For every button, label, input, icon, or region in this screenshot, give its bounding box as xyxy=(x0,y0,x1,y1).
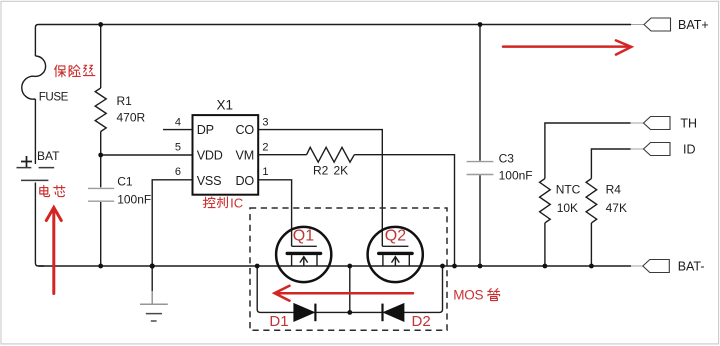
MOSFET Q2 xyxy=(368,227,423,282)
diode D2 xyxy=(383,304,404,322)
svg-text:1: 1 xyxy=(262,166,268,178)
wire VSS pin 6 to ground xyxy=(152,180,192,291)
wire C3 branch top xyxy=(479,25,481,161)
svg-text:DO: DO xyxy=(236,174,255,188)
svg-text:470R: 470R xyxy=(117,111,146,125)
resistor R1 470R xyxy=(95,88,106,132)
diode D1 xyxy=(294,304,316,322)
svg-text:MOS: MOS xyxy=(453,288,483,303)
wire NTC to bottom rail xyxy=(544,223,546,266)
terminal ID xyxy=(631,143,671,156)
wire DP pin 4 stub xyxy=(163,129,193,131)
wire C1 to bottom rail xyxy=(100,202,102,266)
wire CO pin 3 to Q2 gate xyxy=(258,130,382,247)
IC U1 box X1 xyxy=(193,115,259,195)
label 保险丝 (fuse, hand-drawn CJK) xyxy=(55,65,95,77)
wire top rail BAT+ xyxy=(35,25,631,57)
svg-text:D2: D2 xyxy=(412,313,431,330)
wire D1 cathode to middle node xyxy=(316,311,350,313)
resistor R4 47K xyxy=(586,179,597,223)
svg-text:IC: IC xyxy=(230,195,243,210)
svg-text:47K: 47K xyxy=(606,201,627,215)
MOSFET Q1 xyxy=(276,227,331,282)
svg-text:VSS: VSS xyxy=(197,174,222,188)
wire VM pin 2 to R2 xyxy=(258,154,306,156)
wire middle node to D2 cathode xyxy=(350,311,382,313)
terminal TH xyxy=(631,117,671,130)
fuse F1 xyxy=(22,56,46,99)
wire DO pin 1 to Q1 gate xyxy=(258,180,291,247)
svg-text:5: 5 xyxy=(175,142,181,154)
wire VDD pin 5 xyxy=(101,154,193,156)
wire R1 branch vertical top xyxy=(100,25,102,89)
resistor R2 2K xyxy=(307,147,355,162)
wire fuse to battery xyxy=(34,99,36,164)
svg-text:C1: C1 xyxy=(117,174,133,188)
wire C3 to bottom rail xyxy=(479,175,481,266)
svg-text:R1: R1 xyxy=(117,94,133,108)
svg-text:DP: DP xyxy=(197,123,214,137)
svg-text:10K: 10K xyxy=(557,201,578,215)
wire D2 anode to right riser xyxy=(404,266,443,312)
ground xyxy=(140,291,168,321)
svg-text:VDD: VDD xyxy=(197,148,223,162)
wire R4 to bottom rail xyxy=(590,223,592,266)
svg-text:Q2: Q2 xyxy=(385,227,406,244)
wire diode middle riser xyxy=(349,266,351,312)
svg-text:VM: VM xyxy=(236,148,255,162)
red arrow cell current (left) xyxy=(46,208,61,294)
svg-text:TH: TH xyxy=(680,116,697,130)
svg-text:X1: X1 xyxy=(217,98,234,113)
svg-text:R4: R4 xyxy=(606,183,622,197)
capacitor C1 100nF xyxy=(88,188,114,201)
svg-text:ID: ID xyxy=(683,142,696,156)
wire R1 to VDD node xyxy=(100,132,102,188)
svg-text:C3: C3 xyxy=(499,151,515,165)
wire ID branch xyxy=(591,149,630,179)
svg-text:D1: D1 xyxy=(269,313,288,330)
red arrow discharge current (MOS box) xyxy=(275,286,414,301)
svg-text:BAT-: BAT- xyxy=(678,259,705,273)
red arrow charge current (top right) xyxy=(503,40,631,54)
wire TH branch xyxy=(545,123,631,179)
battery plus sign xyxy=(21,156,32,167)
thermistor NTC 10K xyxy=(540,179,551,223)
svg-text:2K: 2K xyxy=(334,164,349,178)
svg-text:100nF: 100nF xyxy=(499,168,533,182)
svg-text:6: 6 xyxy=(175,166,181,178)
label 电芯 (battery cell, hand-drawn CJK) xyxy=(40,185,65,196)
wire battery to bottom rail xyxy=(35,183,44,267)
svg-text:R2: R2 xyxy=(313,164,329,178)
svg-text:BAT+: BAT+ xyxy=(678,18,709,32)
wire R2 to BAT- rail xyxy=(354,155,454,266)
svg-text:3: 3 xyxy=(262,117,268,129)
svg-text:2: 2 xyxy=(262,142,268,154)
svg-text:Q1: Q1 xyxy=(293,227,314,244)
capacitor C3 100nF xyxy=(467,162,494,175)
battery cell BAT plates xyxy=(17,168,55,181)
svg-text:100nF: 100nF xyxy=(117,193,151,207)
terminal BAT- xyxy=(631,260,669,273)
terminal BAT+ xyxy=(631,18,671,31)
dashed MOS-transistor box xyxy=(250,208,447,330)
svg-text:FUSE: FUSE xyxy=(39,91,69,104)
label MOS管 (MOS transistor, hand-drawn CJK + latin) xyxy=(453,288,499,303)
svg-text:BAT: BAT xyxy=(37,149,60,163)
svg-text:NTC: NTC xyxy=(556,183,581,197)
wire diode row left riser xyxy=(257,266,294,312)
label 控制IC (control IC, hand-drawn CJK + latin) xyxy=(203,195,243,210)
svg-text:CO: CO xyxy=(236,123,255,137)
wire bottom rail xyxy=(38,265,631,267)
svg-text:4: 4 xyxy=(175,117,181,129)
